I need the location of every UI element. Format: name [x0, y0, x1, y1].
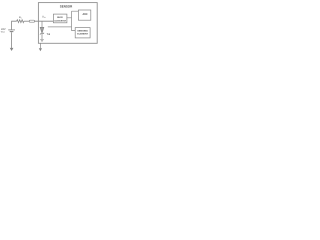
svg-text:24V: 24V: [1, 28, 6, 31]
ADC block: [78, 10, 90, 20]
wire battery negative: [11, 32, 13, 48]
wire fuse to buck converter: [35, 20, 54, 22]
wire resistor to fuse: [24, 20, 29, 22]
buck converter block U1: [53, 14, 67, 23]
svg-text:TVS: TVS: [47, 33, 51, 36]
background: [0, 0, 100, 54]
svg-text:SENSING: SENSING: [77, 29, 88, 32]
svg-text:SENSOR: SENSOR: [60, 5, 73, 9]
ground (TVS): [40, 39, 44, 41]
svg-text:CONVERTER: CONVERTER: [54, 19, 66, 22]
svg-text:ADC: ADC: [83, 13, 88, 16]
wire buck output: [67, 11, 79, 30]
battery V1: [8, 30, 15, 32]
svg-text:BUCK: BUCK: [57, 16, 63, 19]
ground (sensor box): [39, 43, 41, 48]
resistor R: [17, 20, 24, 23]
sensor box outline: [38, 3, 97, 44]
svg-text:ELEMENT: ELEMENT: [77, 33, 88, 36]
fuse F1: [29, 20, 34, 22]
wire to TVS diode: [41, 21, 43, 27]
wire rail under buck: [48, 26, 72, 28]
ground (battery): [10, 48, 14, 51]
wire battery to resistor: [12, 21, 17, 29]
sensing element block: [75, 28, 90, 38]
diode TVS: [40, 27, 44, 39]
